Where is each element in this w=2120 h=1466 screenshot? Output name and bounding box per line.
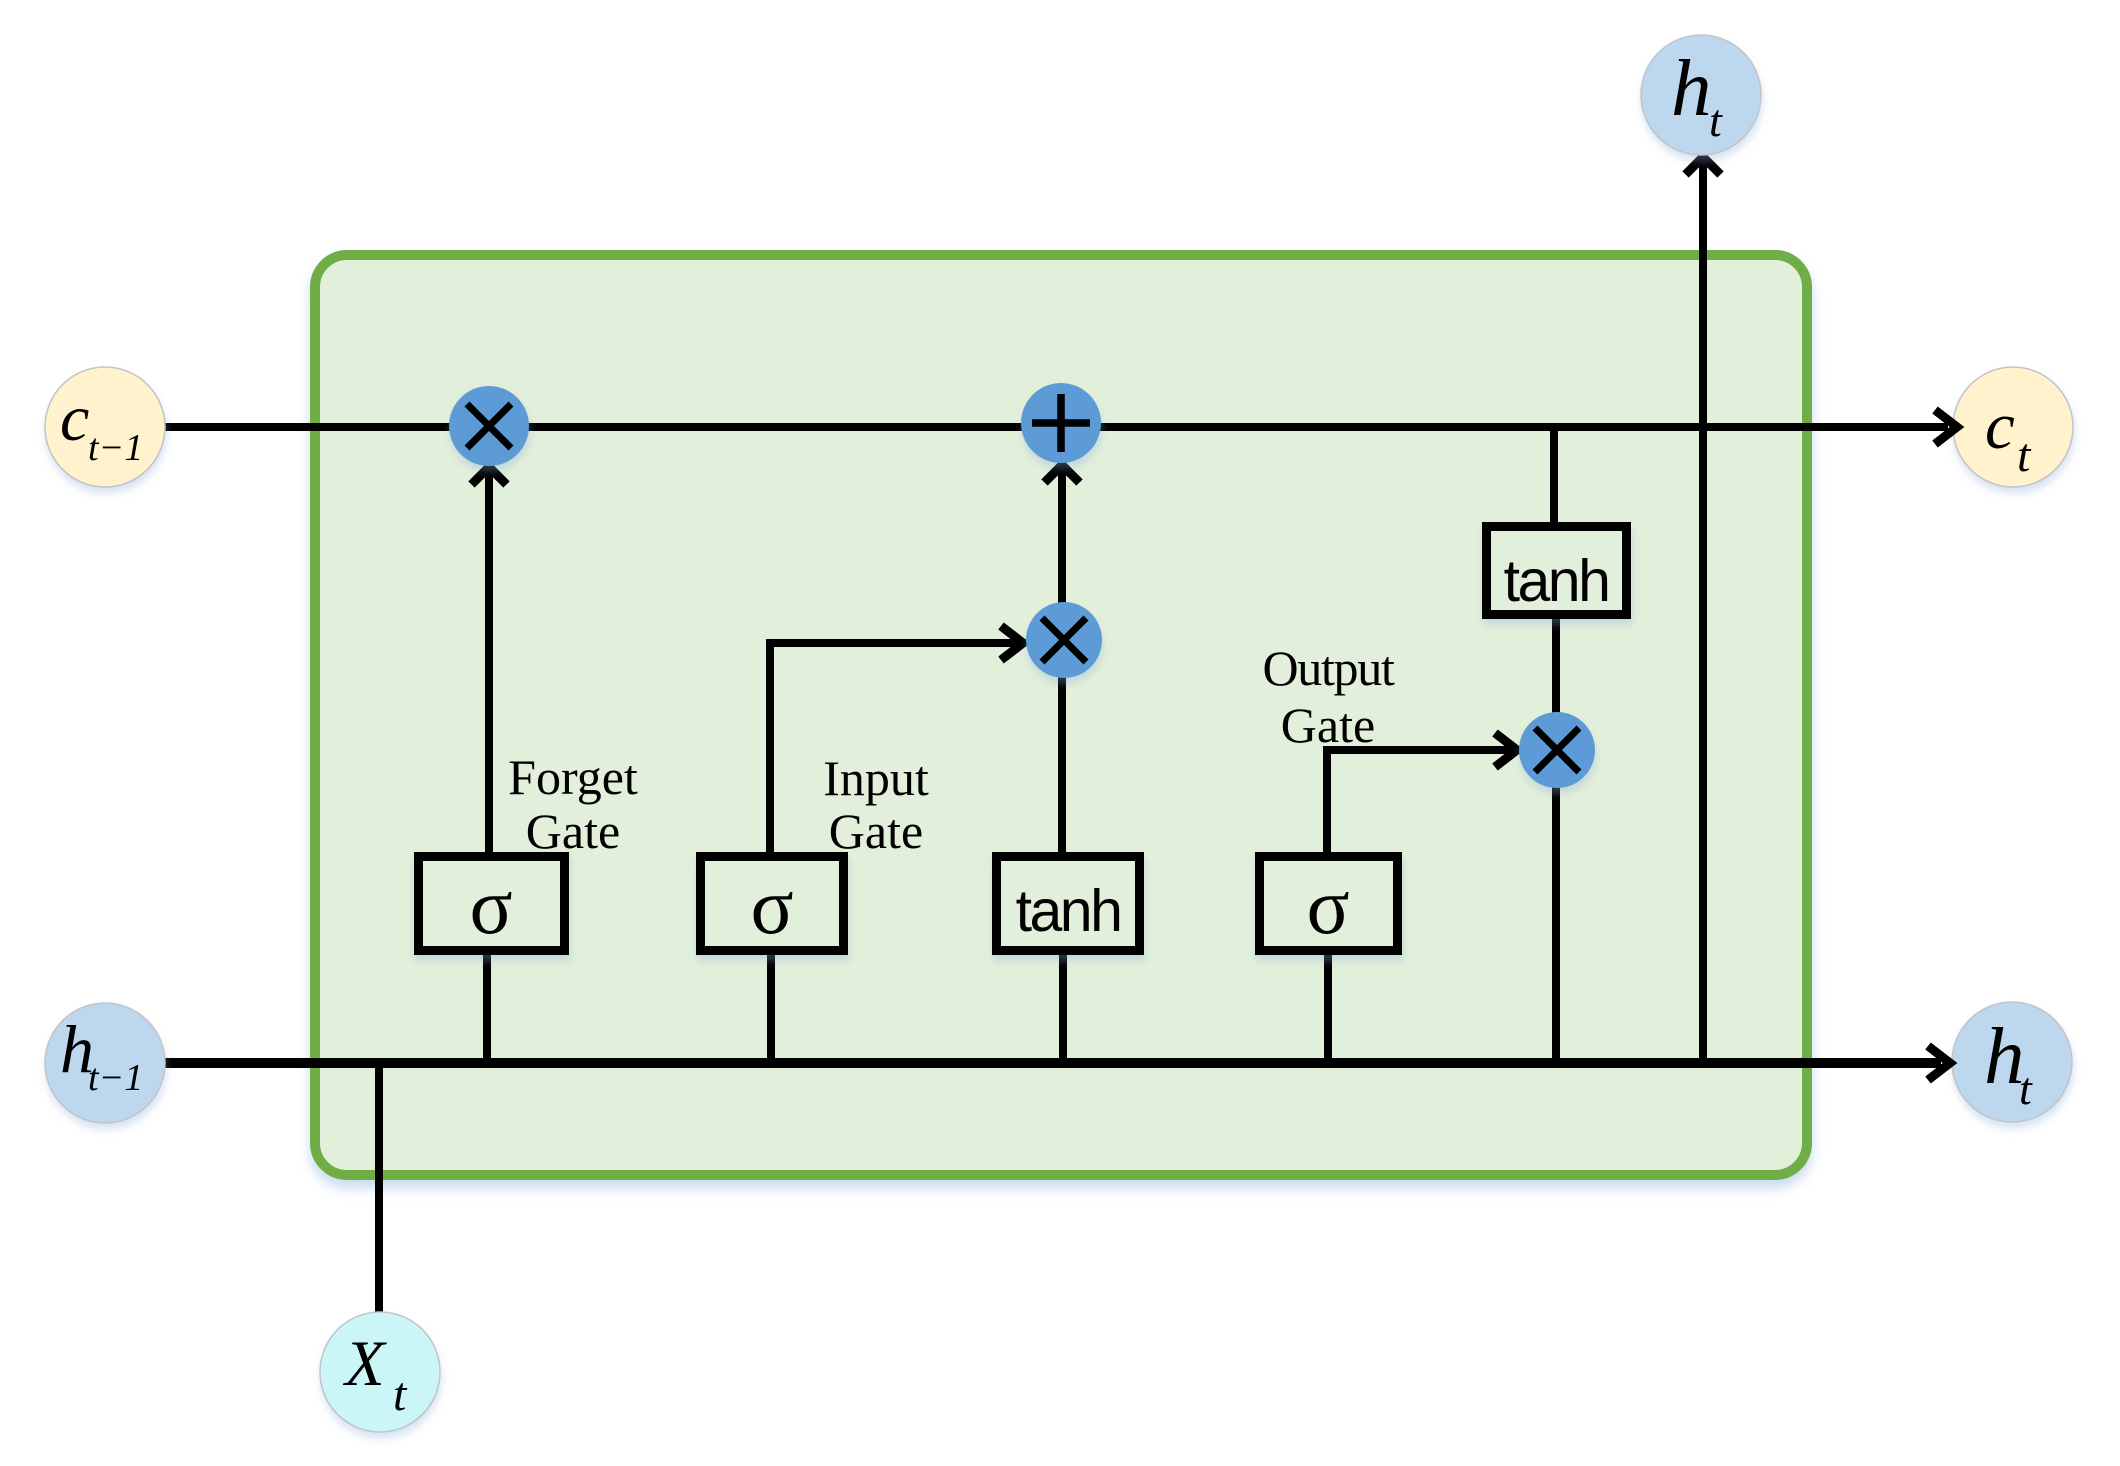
svg-text:t−1: t−1 [88,1057,143,1099]
arrowhead into c_t [1935,410,1957,444]
wire: input gate elbow to input multiply [770,643,1016,852]
svg-text:t: t [2019,1063,2033,1114]
svg-text:σ: σ [1306,863,1349,951]
svg-text:tanh: tanh [1016,878,1121,944]
svg-text:c: c [60,382,89,455]
wire: hidden state line h_{t-1} to h_t [161,1058,1941,1068]
arrowhead right into input multiply [1001,626,1023,660]
wire: output gate elbow to output multiply [1327,750,1510,852]
wire: cell state line c_{t-1} to c_t [161,423,1948,431]
svg-text:h: h [1671,43,1712,133]
svg-text:tanh: tanh [1504,548,1609,614]
LSTM cell body (green rounded box) [315,255,1807,1175]
input multiply node [1026,602,1102,678]
wire: input sigma box down to h line [767,953,775,1063]
svg-text:Output: Output [1262,640,1395,696]
node c_{t-1} [45,367,165,487]
svg-text:Gate: Gate [1281,697,1375,753]
wire: cell line branch down to output tanh box [1550,427,1558,524]
wire: candidate tanh up through input multiply to plus node [1058,470,1066,852]
svg-text:t: t [393,1368,408,1421]
wire: forget sigma box down to h line [483,955,491,1063]
output multiply node [1519,712,1595,788]
candidate tanh box [997,857,1140,951]
wire: candidate tanh box down to h line [1059,950,1067,1063]
wire: output tanh box down through output multiply to h line [1552,617,1560,1063]
svg-text:c: c [1985,389,2015,463]
node h_t (bottom right) [1952,1002,2072,1122]
svg-text:t−1: t−1 [88,427,143,469]
wire: output sigma box down to h line [1324,953,1332,1063]
svg-text:Input: Input [823,750,929,806]
svg-text:σ: σ [469,863,512,951]
input gate sigma box [701,857,844,951]
wire: h_t output line up to top [1699,163,1707,1063]
svg-text:σ: σ [750,863,793,951]
arrowhead up into forget multiply [472,467,507,485]
svg-text:Gate: Gate [526,803,620,859]
wire: forget gate sigma up to multiply node [485,472,493,852]
node h_{t-1} [45,1003,165,1123]
forget multiply node [449,386,529,466]
svg-text:Gate: Gate [829,803,923,859]
output gate sigma box [1260,857,1398,951]
svg-text:X: X [342,1328,387,1400]
svg-text:t: t [2017,429,2032,482]
node X_t [320,1312,440,1432]
arrowhead up into h_t (top) [1686,157,1721,175]
arrowhead into h_t (bottom right) [1928,1046,1950,1080]
node h_t (top) [1641,35,1761,155]
wire: X_t input branch from h line [375,1063,383,1313]
svg-text:Forget: Forget [508,749,638,805]
arrowhead up into plus node [1045,465,1080,483]
svg-text:t: t [1709,95,1723,146]
node c_t [1953,367,2073,487]
output tanh box [1487,527,1627,615]
forget gate sigma box [419,857,565,951]
arrowhead right into output multiply [1495,733,1517,767]
plus node (cell update) [1021,383,1101,463]
